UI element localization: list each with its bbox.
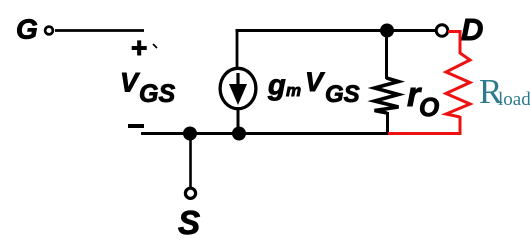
terminal G open circle <box>45 27 53 35</box>
svg-text:D: D <box>461 12 483 47</box>
terminal D open circle <box>436 25 448 37</box>
terminal S open circle <box>185 188 195 198</box>
svg-text:O: O <box>419 92 439 122</box>
resistor Rload zigzag red <box>446 53 470 117</box>
svg-text:GS: GS <box>139 80 175 108</box>
current source circle <box>220 68 256 108</box>
wire bottom horizontal <box>141 132 390 135</box>
svg-text:load: load <box>498 89 530 110</box>
wire ro top vertical <box>385 31 388 80</box>
svg-text:GS: GS <box>325 81 360 108</box>
junction dot drain node <box>380 24 394 38</box>
speckle mark right of plus <box>153 44 157 48</box>
svg-text:+: + <box>131 32 147 63</box>
wire source stub vertical <box>189 134 192 188</box>
wire red load bottom <box>388 116 460 134</box>
wire current source bottom vertical <box>237 108 240 134</box>
junction dot current source bottom <box>232 127 246 141</box>
label - polarity <box>128 124 144 128</box>
resistor rO zigzag <box>375 78 399 113</box>
svg-text:m: m <box>286 81 301 100</box>
wire current source top vertical <box>236 29 239 68</box>
wire top horizontal to drain <box>236 29 437 32</box>
wire gate horizontal <box>55 29 144 32</box>
current source arrow <box>236 73 239 87</box>
svg-text:g: g <box>267 70 286 102</box>
svg-text:V: V <box>305 67 325 97</box>
svg-text:S: S <box>178 204 200 241</box>
wire red load top <box>448 32 460 55</box>
svg-text:G: G <box>16 14 38 45</box>
wire ro bottom vertical <box>386 112 389 135</box>
svg-text:V: V <box>120 68 140 98</box>
junction dot source node <box>183 127 197 141</box>
